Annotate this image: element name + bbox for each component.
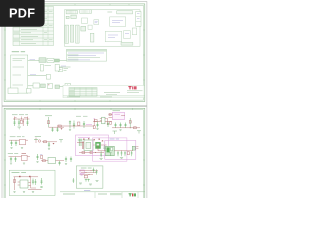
junction [130, 127, 131, 128]
wire [57, 125, 94, 127]
capacitor C18 [48, 142, 50, 148]
wire [59, 66, 70, 67]
IC U2 outline [82, 18, 88, 23]
wire [31, 177, 37, 188]
title block sheet2 grid [95, 192, 138, 198]
resistor R7 [109, 114, 111, 116]
wire [80, 174, 94, 176]
capacitor C5 [56, 127, 58, 132]
resistor R11 [44, 141, 47, 143]
resistor R13 [82, 152, 85, 154]
company text [127, 91, 143, 93]
transistor Q1 [34, 138, 41, 144]
resistor R3 [58, 125, 61, 127]
sheet 2 zone ticks [4, 108, 145, 185]
sheet 1 border frame inner [6, 5, 144, 100]
net label [8, 152, 13, 154]
title block sheet2 top rule [60, 191, 145, 193]
red pin stubs [136, 147, 138, 149]
sheet 1 page edge [2, 2, 147, 106]
capacitor C12 [124, 123, 126, 128]
ground [120, 158, 123, 159]
vertical wire [129, 118, 131, 128]
wire into box [98, 145, 106, 151]
crystal Y2 [78, 139, 83, 147]
wire [28, 85, 33, 87]
TI logo sheet2 [129, 193, 136, 196]
svg-text:PDF: PDF [9, 7, 35, 21]
block ADC [33, 83, 40, 88]
wire [48, 117, 50, 127]
capacitor C8 [96, 122, 98, 128]
resistor R9 [134, 127, 137, 129]
stub wires [15, 117, 28, 120]
wire net VCC [28, 59, 39, 60]
resistor R4 [78, 122, 80, 125]
resistor R10 [41, 156, 43, 159]
block FILT [55, 59, 60, 62]
wire [101, 144, 107, 146]
wire [49, 126, 65, 128]
block MUX [41, 84, 46, 88]
resistor R1 [20, 120, 23, 123]
circuit fragment: bias network [9, 136, 41, 148]
pin header P2 [70, 25, 74, 42]
label text [107, 11, 112, 13]
resistor R6b [110, 122, 112, 124]
page separation line [2, 105, 147, 107]
block diagram title [12, 51, 25, 53]
block REG U10 [48, 84, 53, 89]
circuit fragment: comparator block [109, 111, 141, 131]
IC U17 [20, 180, 28, 188]
net label [113, 110, 121, 112]
net label [110, 138, 119, 140]
sheet 2 page edge [2, 106, 147, 198]
TI logo [128, 86, 136, 89]
net label VOUT [86, 123, 92, 125]
pin wires [109, 115, 126, 118]
ground [36, 161, 38, 162]
sheet2 footer text [63, 193, 107, 195]
capacitor C27 [32, 179, 34, 185]
IC U4 [81, 26, 86, 31]
PDF badge [0, 0, 45, 27]
capacitor C3 [26, 119, 28, 126]
junction [95, 152, 96, 153]
capacitor C30 [93, 168, 95, 173]
net label [94, 117, 95, 119]
circuit fragment: regulator core [93, 117, 112, 129]
sheet 1 border frame outer [4, 4, 145, 102]
note box [8, 88, 18, 94]
wire [112, 127, 140, 129]
capacitor C10 [114, 123, 116, 128]
IC U3 [94, 20, 99, 25]
resistor R17 [14, 180, 16, 183]
capacitor C9 [107, 122, 109, 128]
module U6 [110, 17, 126, 26]
label strip [121, 42, 133, 45]
title text [104, 93, 120, 95]
IC U16 inner [86, 142, 91, 148]
title block grid [69, 88, 97, 97]
wire [81, 172, 96, 174]
sheet 2 border frame inner [6, 110, 144, 202]
capacitor C15 [10, 157, 12, 162]
diode D1 [22, 119, 24, 126]
sheet 2 border frame outer [4, 108, 145, 200]
connector J1 [66, 10, 77, 14]
circuit fragment: filter chain [57, 121, 94, 131]
component K1 [132, 146, 135, 150]
wire [105, 121, 112, 123]
block AUX [27, 89, 32, 94]
junction [120, 149, 123, 152]
wire [13, 118, 30, 120]
value labels [14, 117, 28, 119]
capacitor C22 [103, 145, 105, 151]
ground [96, 128, 98, 129]
wire [9, 139, 28, 141]
block FET [55, 85, 60, 89]
transistor Q3 [85, 179, 90, 182]
IC U11 [102, 117, 105, 124]
box title [12, 172, 20, 174]
capacitor C13 [10, 140, 12, 146]
net stub [59, 140, 63, 143]
title block sheet2 band [110, 193, 122, 195]
IC U19 [106, 146, 115, 155]
net label [78, 136, 90, 138]
resistor R12 [43, 160, 46, 162]
ground [10, 163, 25, 164]
IC U8 [124, 31, 131, 39]
ground [13, 192, 34, 193]
diode D3 [53, 143, 55, 145]
wire [41, 160, 64, 162]
junction [74, 126, 75, 127]
IC U18 [80, 170, 84, 174]
capacitor C28b [100, 151, 102, 158]
red marks [83, 138, 103, 141]
shield box: oscillator branch [76, 166, 103, 188]
note symbol [58, 68, 68, 72]
IC U5 [88, 25, 92, 29]
resistor R5 [95, 120, 98, 122]
magenta mark [81, 174, 83, 175]
capacitor C1 [13, 119, 15, 126]
connector J5 [117, 11, 133, 14]
inductor L1 [69, 121, 71, 129]
block LOAD [65, 84, 71, 89]
net label [10, 136, 16, 138]
IC U16 [84, 140, 93, 151]
wire [93, 121, 102, 123]
capacitor C11 [119, 123, 121, 128]
resistor R2 [47, 121, 49, 124]
IC pin marks [18, 182, 31, 186]
wire [60, 86, 66, 88]
resistor R14 [90, 152, 93, 154]
pin header P4 [90, 33, 94, 42]
block SENSE [46, 74, 50, 79]
resistor R8 [129, 121, 131, 124]
header J3 [71, 15, 76, 19]
pin header P3 [76, 25, 80, 43]
IC U14 [22, 155, 28, 160]
board placement drawing outline [64, 10, 140, 46]
ground [10, 147, 23, 148]
IC U15 [48, 158, 56, 164]
title block bottom rule [63, 96, 145, 97]
block LDO [47, 58, 54, 62]
wire [77, 142, 84, 144]
net stubs right of power stage [109, 153, 111, 156]
ground [79, 181, 99, 186]
capacitor C19 [58, 161, 60, 166]
wire [79, 170, 98, 172]
resistor R6 [93, 126, 95, 129]
circuit fragment: gate drive [40, 155, 72, 166]
red marks [19, 176, 31, 177]
MCU block U1 [11, 55, 28, 93]
capacitor C17 [36, 154, 38, 160]
capacitor C16 [14, 157, 16, 162]
IC U9 [132, 28, 137, 35]
capacitor C7 [83, 121, 85, 128]
value label [35, 135, 41, 137]
ground [69, 130, 71, 131]
capacitor C14 [15, 140, 17, 146]
circuit fragment: input supply [12, 115, 30, 129]
IC U12 [112, 112, 124, 119]
wire [93, 144, 94, 146]
wire [59, 59, 66, 61]
capacitor C33 [35, 179, 37, 185]
ground [119, 130, 121, 131]
IC U13 [20, 139, 26, 144]
header J4 [66, 16, 69, 18]
label blue [84, 189, 90, 191]
wire [28, 75, 47, 76]
connector J6 [136, 12, 141, 27]
capacitor C28 [40, 178, 42, 185]
diode D2 [61, 128, 63, 130]
highlight box: power stage [76, 135, 109, 156]
highlight box: protector section [105, 140, 136, 159]
circuit fragment: reference [45, 116, 64, 132]
capacitor C31 [96, 169, 98, 174]
resistor R15 [127, 152, 129, 155]
box title [81, 167, 87, 169]
vertical wire [14, 177, 16, 190]
net stub [113, 131, 118, 134]
wire [42, 141, 57, 143]
capacitor C27b [131, 151, 133, 156]
capacitor C26 [124, 151, 126, 156]
ground [100, 158, 103, 159]
capacitor C2 [18, 119, 20, 126]
wire [114, 150, 133, 152]
capacitor C6 [73, 121, 75, 129]
block OSC [40, 64, 43, 71]
wire [9, 156, 31, 158]
ground [48, 149, 50, 150]
block DC-DC [39, 58, 46, 63]
connector J2 [80, 10, 92, 14]
capacitor C25 [121, 151, 123, 156]
capacitor C4 [51, 127, 53, 132]
wire bottom [79, 152, 104, 154]
shield box: sensor branch [9, 170, 55, 195]
net label VIN [76, 115, 88, 117]
label [40, 154, 42, 156]
capacitor C20 [65, 157, 67, 163]
capacitor C29 [40, 187, 42, 188]
title block sheet1 outline [63, 85, 145, 98]
junction dots [86, 170, 92, 175]
ground [18, 127, 22, 129]
module U7 [105, 31, 121, 42]
net label [12, 114, 18, 116]
wire [94, 118, 107, 126]
wire [28, 189, 42, 191]
capacitor C24 [117, 151, 119, 156]
revision history table [13, 7, 54, 46]
transistor Q2 [96, 142, 101, 148]
legend table [66, 49, 106, 61]
wire [14, 176, 39, 178]
resistor R18 [84, 175, 87, 178]
junction dots [14, 118, 28, 121]
circuit fragment: clamp [42, 140, 63, 150]
highlight box: gauge section [93, 138, 127, 161]
pin header P1 [65, 25, 69, 43]
capacitor C21 [70, 157, 72, 163]
ground [65, 164, 67, 165]
net label 2 [22, 153, 27, 155]
capacitor C32 [73, 178, 75, 183]
net label [45, 115, 52, 117]
block XTAL [55, 64, 59, 71]
sheet 1 zone ticks [4, 4, 145, 102]
net label [45, 65, 52, 67]
circuit fragment: sense divider [8, 153, 43, 164]
net stub right [137, 131, 141, 134]
